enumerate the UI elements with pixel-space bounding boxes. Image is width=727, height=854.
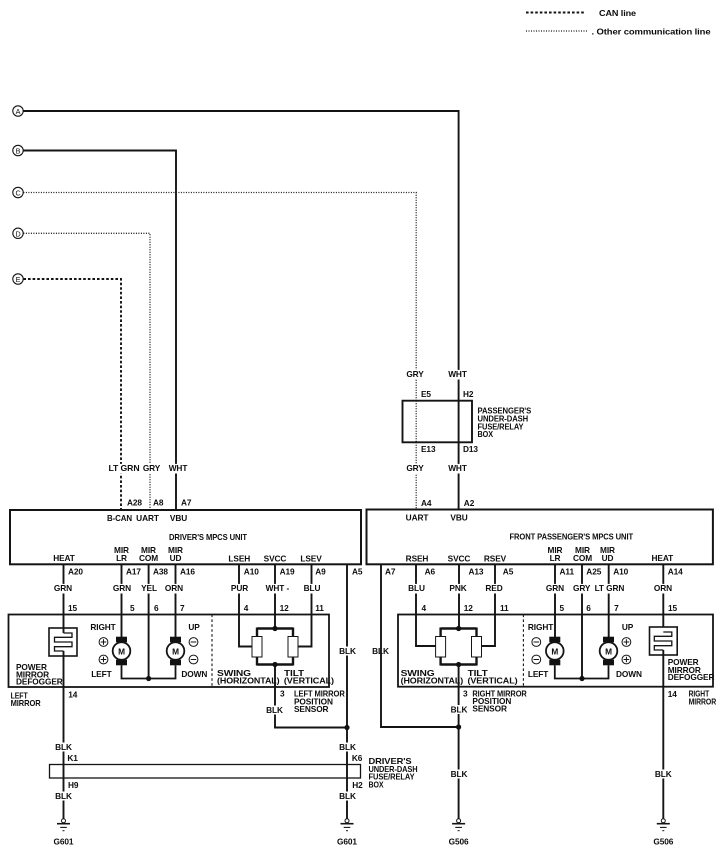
svg-text:3: 3 [280,689,285,699]
label BLK H2 [339,791,357,801]
wire MIR COM GRY right [581,564,583,678]
label ORN right [653,583,674,593]
left mirror internal dashed divider [211,615,213,688]
node D [13,228,23,238]
motor M2 MIR UD left [167,637,185,666]
svg-text:A25: A25 [586,567,601,577]
label ORN [164,583,185,593]
wire MIR LR GRN driver [121,564,123,637]
svg-text:A9: A9 [315,567,326,577]
svg-text:A10: A10 [613,567,628,577]
wire A (WHT solid) to passenger fuse box [23,111,458,510]
right mirror assembly box [398,615,713,687]
svg-text:UART: UART [406,512,429,522]
wire HEAT ORN right [662,564,664,632]
svg-text:FRONT PASSENGER'S MPCS UNIT: FRONT PASSENGER'S MPCS UNIT [510,531,634,541]
tilt potentiometer right [472,637,482,658]
svg-text:A6: A6 [425,567,436,577]
svg-text:11: 11 [315,603,324,613]
svg-text:BLK: BLK [339,646,356,656]
junction sensor bottom left [272,662,277,667]
svg-text:14: 14 [68,690,78,700]
wire C through fuse box [415,401,417,443]
svg-text:DRIVER'S MPCS UNIT: DRIVER'S MPCS UNIT [169,532,247,542]
svg-text:GRY: GRY [406,463,424,473]
svg-text:5: 5 [130,603,135,613]
wire SVCC PNK [458,564,460,628]
junction sensor top right [456,626,461,631]
svg-text:WHT: WHT [448,369,467,379]
driver's MPCS unit box U1 [10,510,361,564]
svg-text:ORN: ORN [165,583,183,593]
wire K1-H9 through box [63,765,65,779]
label BLK A7 [372,646,390,656]
wire LSEV BLU [298,564,312,646]
svg-text:LR: LR [116,553,127,563]
svg-text:RSEH: RSEH [406,553,429,563]
svg-text:SENSOR: SENSOR [472,704,507,714]
svg-text:A14: A14 [668,567,683,577]
svg-text:4: 4 [422,603,427,613]
svg-text:COM: COM [573,553,592,563]
svg-text:15: 15 [68,603,78,613]
junction A5 sensor left [344,725,349,730]
label LEFT MIRROR [11,691,41,708]
polarity mark minus lower right box [532,655,541,664]
svg-text:LR: LR [550,553,561,563]
svg-text:BLK: BLK [266,705,283,715]
svg-text:COM: COM [139,553,158,563]
label BLK defogger ground right [655,769,673,779]
svg-text:BLK: BLK [451,705,468,715]
junction common motors right [579,676,584,681]
label GRN [112,583,133,593]
svg-text:11: 11 [500,603,509,613]
label RED [483,583,505,593]
polarity mark plus lower right box [622,655,631,664]
wire sensor right to ground [458,727,460,819]
svg-text:MIRROR: MIRROR [689,696,717,706]
wire sensor 3 output right [458,665,460,728]
svg-text:E13: E13 [421,444,436,454]
svg-text:MIRROR: MIRROR [11,698,41,708]
svg-text:H2: H2 [352,780,363,790]
label RIGHT MIRROR POSITION SENSOR [472,688,526,713]
svg-text:A8: A8 [153,497,164,507]
svg-text:B-CAN: B-CAN [107,513,132,523]
svg-text:DOWN: DOWN [181,669,207,679]
ground G506 right [653,819,673,847]
junction common motors left [146,676,151,681]
defogger left name [16,662,63,687]
svg-text:PUR: PUR [231,583,248,593]
svg-text:BLK: BLK [339,742,356,752]
svg-text:7: 7 [614,603,619,613]
svg-text:RIGHT: RIGHT [90,622,115,632]
svg-text:SVCC: SVCC [448,553,471,563]
svg-text:RED: RED [485,583,502,593]
motor M1 MIR LR left [113,637,131,666]
svg-text:RIGHT: RIGHT [528,622,553,632]
junction sensor top left [272,626,277,631]
svg-text:HEAT: HEAT [53,553,75,563]
label BLK sensor right [450,705,468,715]
svg-text:BLU: BLU [408,583,425,593]
label BLK A5 [339,646,357,656]
label BLK A5 above K6 [339,742,357,752]
wire LSEH PUR [239,564,252,646]
svg-text:A10: A10 [244,567,259,577]
defogger right name [668,657,715,682]
svg-text:LT GRN: LT GRN [109,463,140,473]
svg-text:BLK: BLK [339,791,356,801]
svg-text:GRY: GRY [573,583,591,593]
wire B (WHT solid) to driver MPCS VBU [23,151,176,511]
legend CAN line sample [526,12,585,14]
svg-text:D: D [15,229,20,238]
motor M3 MIR LR right [546,637,564,666]
svg-text:E5: E5 [421,389,431,399]
label TILT (VERTICAL) right [468,668,518,685]
driver's under-dash fuse/relay box name [369,756,418,789]
svg-text:6: 6 [154,603,159,613]
label GRY below fuse box [406,463,425,473]
label BLU [302,583,322,593]
label WHT - [263,583,292,593]
wire D (GRY dotted, other communication) [23,233,150,510]
svg-text:GRY: GRY [143,463,161,473]
svg-text:LSEH: LSEH [228,553,250,563]
wire A7 BLK right [381,564,459,727]
svg-text:A11: A11 [560,567,575,577]
driver's under-dash fuse/relay box [50,765,361,779]
svg-text:A5: A5 [503,567,514,577]
svg-text:M: M [551,647,558,657]
svg-text:UART: UART [136,513,159,523]
svg-text:A17: A17 [126,567,141,577]
svg-text:12: 12 [280,603,290,613]
svg-text:BLK: BLK [55,742,72,752]
label BLK sensor ground right [450,769,468,779]
left mirror position sensor bridge [257,628,293,666]
wire MIR UD LT GRN right [608,564,610,637]
swing potentiometer right [436,637,446,658]
label PNK [448,583,469,593]
label GRN right [545,583,566,593]
wire defogger right to ground [662,687,664,819]
label GRY above fuse box [406,369,425,379]
svg-text:(VERTICAL): (VERTICAL) [284,675,334,685]
label BLU right [407,583,427,593]
junction sensor bottom right [456,662,461,667]
svg-text:VBU: VBU [450,512,467,522]
svg-text:DEFOGGER: DEFOGGER [16,677,63,687]
svg-text:C: C [15,189,20,198]
svg-text:BLU: BLU [304,583,321,593]
node E [13,274,23,284]
label YEL [139,583,159,593]
svg-text:LT GRN: LT GRN [595,583,625,593]
svg-text:(HORIZONTAL): (HORIZONTAL) [401,675,464,685]
svg-text:GRY: GRY [406,369,424,379]
wire 14 left defogger to ground [63,687,65,765]
power mirror defogger right [650,627,678,687]
wire A through fuse box [458,401,460,443]
label TILT (VERTICAL) left [284,668,334,685]
ground G601 left [54,819,74,847]
wire H2 to ground [346,778,348,819]
svg-text:UP: UP [622,622,634,632]
svg-text:BOX: BOX [478,429,494,439]
label GRY right [571,583,592,593]
right mirror position sensor bridge [441,628,477,666]
svg-text:BOX: BOX [369,779,384,789]
svg-text:12: 12 [464,603,474,613]
label PUR [229,583,250,593]
node B [13,145,23,155]
polarity mark minus lower left box [189,655,198,664]
svg-text:D13: D13 [463,444,478,454]
svg-text:UP: UP [188,622,200,632]
svg-text:SENSOR: SENSOR [294,704,329,714]
svg-text:A4: A4 [421,498,432,508]
polarity mark plus upper right box [622,638,631,647]
label SWING (HORIZONTAL) left [217,668,280,685]
svg-text:UD: UD [170,553,182,563]
passenger fuse box name [478,406,532,440]
svg-text:PNK: PNK [449,583,466,593]
svg-text:7: 7 [180,603,185,613]
label LT GRN [108,463,141,473]
wire M4 bottom to common [582,665,609,678]
svg-text:GRN: GRN [546,583,564,593]
svg-text:5: 5 [560,603,565,613]
svg-text:14: 14 [668,689,678,699]
label WHT [167,463,189,473]
junction A7 sensor right [456,724,461,729]
label GRN [53,583,74,593]
label SWING (HORIZONTAL) right [401,668,464,685]
svg-text:A7: A7 [385,567,396,577]
wire SVCC WHT [274,564,276,628]
svg-text:G506: G506 [653,836,673,846]
svg-text:6: 6 [586,603,591,613]
label LEFT MIRROR POSITION SENSOR [294,689,345,714]
wire A5 BLK driver [346,564,348,764]
svg-text:G601: G601 [54,836,74,846]
wire RSEV RED [482,564,496,646]
svg-text:4: 4 [244,603,249,613]
wire RSEH BLU [416,564,436,646]
wire E (LT GRN dashed, CAN line) [23,279,121,510]
polarity mark minus upper right box [532,638,541,647]
wire sensor 3 output left [275,665,347,728]
wire M2 bottom to common [149,665,176,678]
svg-text:HEAT: HEAT [652,553,674,563]
tilt potentiometer left [288,637,298,658]
svg-text:A5: A5 [352,567,363,577]
svg-text:3: 3 [463,688,468,698]
polarity mark plus upper left [99,638,108,647]
svg-text:G506: G506 [449,836,469,846]
svg-text:M: M [118,647,125,657]
svg-text:15: 15 [668,603,678,613]
svg-text:BLK: BLK [55,791,72,801]
svg-text:A13: A13 [469,567,484,577]
svg-text:A16: A16 [180,567,195,577]
svg-text:M: M [172,647,179,657]
wire M1 bottom to common [122,665,149,678]
svg-text:LSEV: LSEV [300,553,322,563]
motor M4 MIR UD right [600,637,618,666]
svg-text:RSEV: RSEV [484,553,507,563]
svg-text:BLK: BLK [451,769,468,779]
label BLK left above K1 [55,742,73,752]
svg-text:A7: A7 [181,497,192,507]
front passenger's MPCS unit box U2 [367,510,713,565]
wire HEAT GRN driver [63,564,65,614]
svg-text:BLK: BLK [655,769,672,779]
svg-text:(VERTICAL): (VERTICAL) [468,675,518,685]
passenger's under-dash fuse/relay box [403,401,473,443]
label RIGHT MIRROR [689,689,717,707]
svg-text:A19: A19 [280,567,295,577]
left mirror assembly box [9,615,330,688]
svg-text:LEFT: LEFT [91,669,111,679]
svg-text:WHT -: WHT - [266,583,290,593]
wire MIR LR GRN right [554,564,556,637]
svg-text:K6: K6 [352,753,363,763]
svg-text:VBU: VBU [170,513,187,523]
svg-text:WHT: WHT [169,463,188,473]
svg-text:K1: K1 [67,753,78,763]
label WHT above fuse box [447,369,469,379]
svg-text:GRN: GRN [113,583,131,593]
wire C (GRY dotted, other communication) [23,193,416,510]
swing potentiometer left [252,637,262,658]
svg-text:A2: A2 [464,498,475,508]
wire H9 to ground [63,778,65,819]
legend Other communication line sample [526,30,587,32]
wire K6-H2 through box [346,765,348,779]
svg-text:M: M [605,647,612,657]
svg-text:B: B [16,147,21,156]
wire MIR COM YEL driver [148,564,150,678]
svg-text:UD: UD [602,553,614,563]
svg-text:A: A [16,107,21,116]
label BLK sensor left [266,705,284,715]
right mirror internal dashed divider [522,615,524,687]
label BLK H9 [55,791,73,801]
svg-text:ORN: ORN [654,583,672,593]
svg-text:CAN line: CAN line [599,8,637,18]
svg-text:(HORIZONTAL): (HORIZONTAL) [217,675,280,685]
node A [13,106,23,116]
ground G506 left [449,819,469,847]
svg-text:SVCC: SVCC [264,553,287,563]
polarity mark plus lower left [99,655,108,664]
svg-text:GRN: GRN [54,583,72,593]
label WHT below fuse box [447,463,469,473]
svg-text:H2: H2 [463,389,474,399]
power mirror defogger left [49,615,77,688]
svg-text:DOWN: DOWN [616,669,642,679]
svg-text:LEFT: LEFT [528,669,548,679]
svg-text:G601: G601 [337,836,357,846]
wire M3 bottom to common [555,665,582,678]
svg-text:E: E [16,275,21,284]
label GRY [142,463,161,473]
svg-text:YEL: YEL [141,583,157,593]
svg-text:. Other communication line: . Other communication line [592,27,712,37]
svg-text:WHT: WHT [448,463,467,473]
svg-text:A38: A38 [153,567,168,577]
svg-text:H9: H9 [68,780,79,790]
polarity mark minus upper left box [189,638,198,647]
node C [13,187,23,197]
label LT GRN right [593,583,626,593]
wire MIR UD ORN driver [175,564,177,637]
svg-text:A20: A20 [68,567,83,577]
svg-text:DEFOGGER: DEFOGGER [668,672,715,682]
svg-text:A28: A28 [127,497,142,507]
ground G601 right [337,819,357,847]
